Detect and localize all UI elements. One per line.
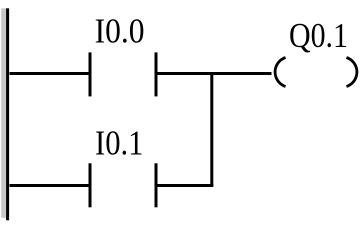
- contact I0.1 right bar: [155, 163, 158, 207]
- wire rung1 rail to contact I0.0: [10, 72, 89, 75]
- left power rail: [6, 8, 9, 220]
- wire rung2 contact to branch: [158, 184, 214, 187]
- coil Q0.1 left arc: [275, 58, 285, 87]
- svg-text:I0.0: I0.0: [95, 12, 145, 51]
- contact I0.1 left bar: [89, 163, 92, 207]
- wire rung1 contact to coil: [158, 72, 272, 75]
- coil Q0.1 right arc: [347, 58, 357, 87]
- svg-text:Q0.1: Q0.1: [289, 16, 348, 55]
- wire rung2 rail to contact I0.1: [10, 184, 89, 187]
- wire branch vertical junction: [210, 72, 213, 186]
- svg-text:I0.1: I0.1: [95, 123, 144, 162]
- contact I0.0 right bar: [155, 52, 158, 96]
- left power rail shadow band: [1, 8, 6, 218]
- contact I0.0 left bar: [89, 52, 92, 96]
